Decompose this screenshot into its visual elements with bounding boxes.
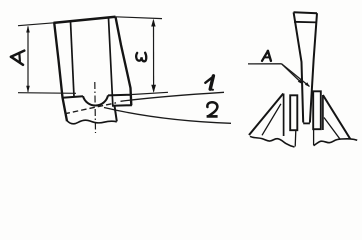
- blade lower broken part: step bottom line: [112, 104, 132, 107]
- blade front view: left edge: [54, 23, 67, 122]
- dimension epsilon: letter epsilon (rotated, drawn): [136, 53, 146, 62]
- arrowhead on right facet: [305, 82, 310, 87]
- blade side view: left side: [294, 12, 304, 122]
- arrowhead on left facet: [298, 79, 303, 84]
- label A underline: [248, 63, 282, 65]
- blade front view: semicircular notch: [83, 95, 108, 105]
- blade side view: top edge: [294, 12, 318, 13]
- dimension A: bottom arrowhead: [26, 86, 30, 93]
- left support block hypotenuse: [249, 94, 283, 136]
- label 1 (drawn digit): [205, 78, 212, 83]
- blade lower broken part: right side: [115, 106, 117, 122]
- blade front view: bottom edge right part: [108, 94, 131, 97]
- blade front view: vertical dashed centerline: [94, 82, 97, 133]
- leader from A to right facet: [282, 64, 310, 87]
- dimension epsilon: top extension line: [116, 17, 163, 19]
- label A (side view, drawn): [262, 51, 271, 61]
- dimension epsilon: vertical dimension line: [153, 21, 155, 92]
- leader from A to left facet: [282, 64, 303, 84]
- blade front view: top edge with left extension line: [18, 23, 54, 26]
- right support block hypotenuse: [323, 95, 350, 139]
- blade side view: tip bottom edge: [303, 122, 310, 124]
- dimension A: vertical dimension line: [27, 27, 29, 92]
- clamp left jaw: [290, 95, 297, 130]
- dimension A: letter A (rotated, drawn): [11, 51, 24, 65]
- blade lower broken part: wavy break line: [67, 120, 117, 124]
- clamp right jaw: [313, 91, 321, 129]
- ground wavy line right part: [314, 139, 358, 146]
- label 2 (drawn digit): [207, 102, 218, 116]
- lower guide line below right jaw: [313, 130, 315, 146]
- blade front view: top edge: [54, 17, 116, 23]
- right support block hatch line: [324, 118, 340, 140]
- ground wavy line left part: [250, 136, 295, 147]
- left support block right side: [283, 94, 285, 137]
- right support block left side: [322, 95, 324, 130]
- dimension A: bottom extension line: [18, 92, 76, 95]
- left support block hatch line: [262, 104, 281, 136]
- blade side view: right side: [310, 13, 317, 122]
- dimension epsilon: top arrowhead: [151, 19, 155, 27]
- blade front view: bottom edge left part: [62, 96, 83, 98]
- blade front view: right edge: [116, 17, 132, 106]
- blade front view: inner left facet line: [71, 21, 75, 97]
- dimension epsilon: bottom arrowhead: [151, 85, 156, 93]
- leader line to label 2: [104, 108, 231, 124]
- blade side view: collar line: [294, 21, 316, 24]
- blade lower broken part: hidden diagonal dashed line: [65, 103, 117, 114]
- dimension A: top arrowhead: [26, 26, 30, 33]
- lower guide line below left jaw: [294, 131, 297, 147]
- leader line to label 1: [121, 92, 225, 101]
- blade front view: inner right facet line: [109, 18, 113, 105]
- dimension epsilon: bottom extension line: [126, 92, 168, 95]
